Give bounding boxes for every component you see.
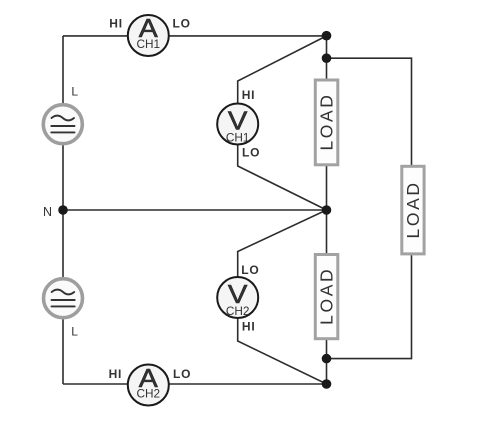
svg-text:L: L bbox=[71, 325, 78, 339]
svg-text:LO: LO bbox=[242, 146, 260, 160]
svg-text:LOAD: LOAD bbox=[403, 180, 423, 238]
svg-text:CH2: CH2 bbox=[226, 304, 250, 318]
svg-text:LO: LO bbox=[241, 263, 259, 277]
svg-text:N: N bbox=[43, 205, 52, 219]
svg-text:LO: LO bbox=[173, 17, 191, 31]
svg-text:CH1: CH1 bbox=[226, 130, 250, 144]
svg-text:LO: LO bbox=[173, 367, 191, 381]
svg-text:CH1: CH1 bbox=[136, 37, 160, 51]
svg-text:LOAD: LOAD bbox=[317, 92, 337, 150]
svg-text:HI: HI bbox=[109, 17, 123, 31]
svg-text:HI: HI bbox=[109, 367, 123, 381]
svg-text:L: L bbox=[71, 85, 78, 99]
svg-text:LOAD: LOAD bbox=[317, 267, 337, 325]
svg-text:HI: HI bbox=[242, 320, 256, 334]
svg-text:HI: HI bbox=[242, 88, 256, 102]
svg-text:CH2: CH2 bbox=[136, 387, 160, 401]
